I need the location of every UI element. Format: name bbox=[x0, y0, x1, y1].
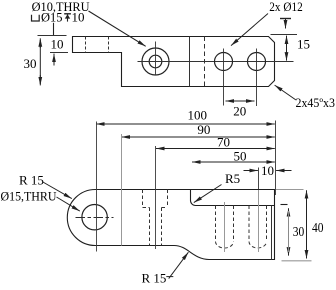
top view plate outline with chamfered right corners bbox=[73, 37, 275, 87]
dimension 90 line bbox=[122, 136, 275, 138]
dimension 50 line bbox=[192, 161, 275, 163]
leader R15 bottom arrow bbox=[166, 276, 173, 278]
step edge with R5 fillet bbox=[191, 190, 275, 206]
counterbore hole inner circle bbox=[149, 55, 162, 68]
dimension 40 line bbox=[306, 190, 308, 200]
extension/centerline x=94 (100 dim) bbox=[96, 122, 98, 252]
dimension 10 (left, top view) extension line A bbox=[38, 35, 67, 37]
dimension 10 lower arrow bbox=[53, 54, 55, 66]
leader R15 upper arrow bbox=[42, 182, 72, 199]
leader R5 arrow bbox=[194, 185, 222, 203]
svg-text:R 15: R 15 bbox=[19, 173, 44, 188]
svg-text:30: 30 bbox=[24, 56, 37, 71]
hole 2 centerline (front) bbox=[258, 190, 260, 252]
hole 2 circle bbox=[248, 53, 266, 71]
horizontal centerline through holes bbox=[138, 61, 294, 63]
leader O15 THRU arrow bbox=[57, 197, 80, 211]
svg-text:2x45ºx3: 2x45ºx3 bbox=[296, 96, 336, 110]
svg-text:70: 70 bbox=[217, 134, 230, 149]
hole 1 vertical centerline / extension bbox=[223, 49, 225, 106]
leader chamfer note arrow bbox=[275, 85, 296, 100]
counterbore note line 2 : cbore symbol, dia, depth symbol bbox=[32, 15, 40, 21]
svg-text:15: 15 bbox=[297, 36, 310, 51]
svg-text:50: 50 bbox=[234, 148, 247, 163]
hidden dashed line left 2 bbox=[108, 37, 110, 53]
leader from counterbore note to hole bbox=[89, 11, 146, 46]
dimension 70 line bbox=[156, 148, 275, 150]
dimension 100 line bbox=[96, 123, 275, 125]
svg-text:10: 10 bbox=[261, 163, 274, 178]
dimension 15 line bbox=[286, 36, 288, 60]
svg-text:10: 10 bbox=[72, 10, 85, 25]
hole in boss bbox=[82, 205, 107, 230]
hole 1 centerline (front) bbox=[224, 202, 226, 252]
dimension 10 upper stem arrow bbox=[53, 23, 55, 35]
dimension 10 extension line B bbox=[50, 52, 68, 54]
bar-and-arrow symbol above 15 bbox=[280, 18, 291, 20]
right extension line (common) bbox=[275, 121, 277, 196]
svg-text:10: 10 bbox=[51, 37, 64, 52]
hidden counterbore wide part bbox=[143, 190, 168, 246]
svg-text:90: 90 bbox=[197, 122, 210, 137]
svg-text:30: 30 bbox=[293, 225, 305, 240]
dimension 30 (front view right) bbox=[281, 204, 288, 206]
svg-text:40: 40 bbox=[312, 221, 324, 236]
leader 2x O12 arrow bbox=[231, 14, 268, 46]
svg-text:Ø15: Ø15 bbox=[41, 10, 63, 25]
hidden hole 2 (front view) bbox=[249, 206, 267, 249]
chamfer edge line bbox=[271, 206, 273, 260]
hole 2 vertical centerline / extension bbox=[256, 49, 258, 107]
dimension 15 extension line bbox=[271, 34, 298, 36]
30/40 bottom extension line bbox=[282, 260, 312, 262]
dimension 10 (right) outside arrows bbox=[244, 170, 258, 172]
svg-text:R5: R5 bbox=[225, 171, 240, 186]
front view outline bbox=[67, 190, 274, 260]
extension line x=120.7 (90 dim) bbox=[121, 134, 123, 246]
counterbore hole outer circle bbox=[142, 48, 169, 75]
svg-text:20: 20 bbox=[233, 103, 246, 118]
hidden hole 1 (front view) bbox=[216, 206, 234, 249]
hidden dashed line left 1 bbox=[85, 37, 87, 53]
hidden dashed vertical line in plate bbox=[204, 37, 206, 87]
svg-text:100: 100 bbox=[188, 108, 208, 123]
hole 1 circle bbox=[215, 53, 233, 71]
dimension 30 line (left) bbox=[39, 38, 41, 48]
svg-text:R 15: R 15 bbox=[142, 271, 167, 286]
dimension 20 line bbox=[226, 100, 255, 102]
depth symbol bbox=[64, 14, 71, 22]
counterbore hole vertical centerline bbox=[155, 42, 157, 76]
40 top extension line bbox=[276, 189, 304, 191]
svg-text:2x Ø12: 2x Ø12 bbox=[269, 0, 303, 14]
hidden counterbore narrow part bbox=[149, 208, 151, 246]
solid vertical edge in plate bbox=[189, 37, 191, 87]
boss hole horizontal centerline bbox=[76, 217, 114, 219]
svg-text:Ø15,THRU: Ø15,THRU bbox=[1, 189, 58, 204]
extension/centerline x=155.3 (70 dim) bbox=[155, 146, 157, 249]
extension line 10-dim left bbox=[258, 168, 260, 191]
